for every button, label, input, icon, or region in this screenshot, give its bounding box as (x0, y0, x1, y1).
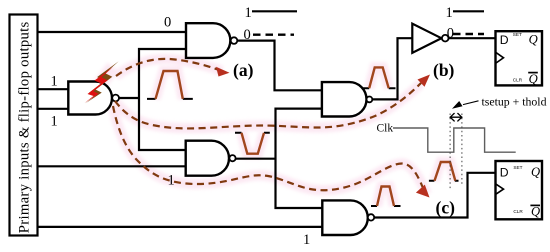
NAND gate U2 (top) (186, 23, 230, 58)
U7 output bubble (368, 214, 374, 220)
svg-text:(a): (a) (233, 60, 254, 80)
pulse P1 baseline (147, 98, 193, 100)
wire W3 to glitch gate input2 (38, 108, 70, 110)
svg-text:1: 1 (303, 232, 310, 247)
svg-text:(c): (c) (436, 198, 456, 218)
pulse P2 baseline (235, 132, 270, 134)
flip-flop U8 (bottom right) (496, 161, 543, 219)
pulse P3 (369, 67, 389, 88)
svg-text:(b): (b) (433, 60, 455, 80)
U3 output wire to V2 (236, 158, 277, 160)
lightning bolt red part (85, 67, 114, 103)
svg-text:Clk: Clk (377, 123, 394, 135)
svg-text:0: 0 (447, 26, 454, 42)
U5 output wire to FF1 (449, 37, 497, 39)
svg-text:1: 1 (51, 74, 58, 90)
pulse P2 (inverted) (242, 133, 265, 154)
NAND gate U7 (bottom) (322, 200, 368, 235)
pulse P3 baseline (363, 87, 396, 89)
svg-text:tsetup + thold: tsetup + thold (482, 94, 547, 108)
svg-text:SET: SET (513, 32, 522, 37)
pulse P4 baseline (371, 205, 401, 207)
wire W2 to glitch gate input1 (38, 88, 70, 90)
dotted window line left (449, 114, 451, 191)
dashed propagation curve (b) (115, 83, 421, 128)
arrowhead (b) (418, 75, 431, 87)
primary inputs box (10, 15, 38, 236)
dashed propagation curve (a) (116, 59, 222, 76)
vertical wire V2 with branches (276, 109, 323, 208)
svg-text:CLR: CLR (513, 77, 523, 82)
dotted window line right (461, 114, 463, 185)
U4 output wire + V3 up to inverter (372, 38, 412, 99)
NAND gate U4 (middle) (322, 82, 367, 116)
svg-text:D: D (500, 166, 509, 180)
inverter U5 (412, 24, 441, 53)
wire V0 lower branch to NAND3 input1 (139, 98, 187, 150)
vertical wire V0 from U1 output (139, 49, 187, 98)
svg-text:Q: Q (529, 72, 538, 86)
svg-text:D: D (500, 33, 509, 47)
NAND gate U1 (glitch gate) (68, 82, 112, 115)
arrowhead (c) (416, 185, 430, 198)
lightning bolt (SET strike) brown part (85, 61, 118, 103)
svg-text:Q: Q (529, 33, 538, 47)
svg-text:1: 1 (446, 5, 453, 21)
U5 output bubble (442, 35, 449, 42)
svg-text:0: 0 (244, 27, 251, 43)
dashed propagation curve (c) (113, 106, 423, 190)
double arrow between dotted lines (450, 113, 462, 121)
U2 output bubble (231, 37, 238, 44)
arrowhead (a) (216, 67, 230, 77)
wire W1 to top NAND input1 (38, 31, 188, 33)
pulse P5 baseline (429, 180, 459, 182)
pink highlight halos (88, 59, 455, 206)
svg-text:CLR: CLR (513, 209, 523, 214)
wire W4 to NAND3 input2 (38, 165, 188, 167)
svg-text:Q: Q (531, 204, 540, 218)
U6 clock triangle (496, 52, 504, 63)
U4 output bubble (367, 97, 373, 103)
svg-text:SET: SET (513, 165, 522, 170)
pulse P5 (435, 162, 456, 181)
wire W5 to bottom NAND input2 (38, 226, 324, 228)
svg-text:1: 1 (51, 114, 58, 130)
flip-flop U6 (top right) (496, 31, 543, 85)
tsetup pointer arrow (463, 101, 479, 105)
clock waveform (393, 128, 516, 152)
U3 output bubble (229, 155, 235, 161)
NAND gate U3 (lower-middle small) (186, 141, 229, 176)
svg-text:Q: Q (531, 165, 540, 179)
svg-text:Primary inputs & flip-flop out: Primary inputs & flip-flop outputs (17, 21, 33, 233)
U8 clock triangle (496, 184, 504, 195)
U1 output stub wire (119, 97, 140, 99)
U1 output bubble (112, 95, 119, 102)
svg-text:1: 1 (245, 5, 252, 21)
U2 output wire + V1 down to middle NAND input1 (237, 41, 322, 91)
pulse P4 (377, 187, 394, 207)
svg-text:0: 0 (164, 15, 171, 31)
pulse P1 (156, 71, 183, 99)
U7 output wire + V4 up to FF2 (374, 173, 496, 218)
